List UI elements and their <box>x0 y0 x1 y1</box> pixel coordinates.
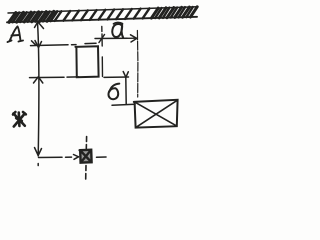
dashed level line at box top <box>31 43 97 45</box>
arrowhead up at box-bottom level junction <box>34 77 43 83</box>
label ж (dimension wall-box chain to floor outlet) <box>13 112 26 127</box>
label Д (dimension wall to box) <box>8 27 24 43</box>
extension line from box 1 right edge (dashed) <box>101 27 104 77</box>
junction box 2 (crossed rectangle) <box>134 100 178 128</box>
bottom level dashed line to floor outlet <box>39 155 107 160</box>
vertical dimension line (wall to floor outlet) <box>38 23 39 157</box>
arrow tick left end of a <box>99 35 105 43</box>
centerline dashes above outlet <box>85 137 87 149</box>
wall (hatched ceiling band) <box>7 7 197 22</box>
arrowhead right end of a <box>131 35 137 42</box>
vertical dimension line b <box>125 77 127 104</box>
centerline dashes below outlet <box>85 166 87 180</box>
junction box 1 (plain square) <box>75 46 98 77</box>
label б <box>108 84 119 100</box>
dashed level line at box bottom (left side) <box>30 76 79 79</box>
arrowhead down at box-top level, with slash <box>32 41 42 48</box>
arrowhead up at top of b <box>123 72 128 78</box>
arrowhead down at bottom outlet level <box>35 148 42 166</box>
arrowhead up at wall <box>35 22 44 29</box>
long extension line down to envelope box <box>136 31 139 98</box>
level line right of box 1 bottom <box>104 76 129 78</box>
label а (dimension) <box>112 22 123 37</box>
floor outlet box (small dark crossed square) <box>80 150 92 163</box>
horizontal dimension line a <box>95 37 137 39</box>
extension line at envelope top <box>112 104 135 105</box>
